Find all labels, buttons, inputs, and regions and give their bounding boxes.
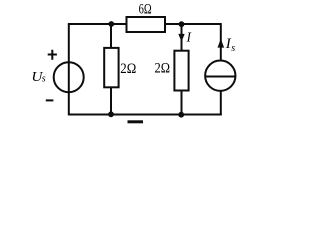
resistor R1 2Ω box: [104, 48, 118, 87]
node junction dot (bottom of R1 branch): [108, 111, 114, 117]
wire: left branch vertical (through voltage source): [68, 23, 70, 115]
resistor R2 2Ω box: [174, 51, 188, 91]
wire: right branch vertical bottom: [220, 91, 222, 115]
svg-text:s: s: [231, 43, 235, 54]
wire: top-left horizontal segment: [68, 23, 126, 25]
minus sign of Us: [46, 99, 54, 101]
node junction dot (top of R1 branch): [108, 21, 114, 27]
wire: top-right horizontal segment: [165, 23, 221, 25]
voltage source Us circle: [54, 62, 84, 92]
resistor R 6Ω box: [127, 17, 166, 32]
svg-text:2Ω: 2Ω: [120, 61, 136, 77]
svg-text:I: I: [186, 30, 193, 45]
arrow Is (upward on right branch): [218, 39, 225, 48]
current arrow I (downward on R2 branch): [181, 24, 183, 51]
node junction dot (top of R2 branch): [179, 21, 185, 27]
current source Is circle: [205, 61, 235, 91]
wire: R1 branch vertical bottom: [110, 87, 112, 115]
wire: R1 branch vertical top: [110, 24, 112, 48]
wire: R2 branch vertical bottom: [181, 90, 183, 115]
svg-text:2Ω: 2Ω: [155, 61, 171, 77]
svg-text:s: s: [42, 74, 46, 85]
current source horizontal bar: [205, 76, 236, 78]
wire: bottom horizontal: [68, 114, 222, 116]
wire: right branch vertical top: [220, 23, 222, 61]
ground bar: [128, 120, 144, 123]
svg-text:6Ω: 6Ω: [139, 2, 152, 18]
plus sign of Us: [48, 50, 57, 60]
node junction dot (bottom of R2 branch): [178, 112, 184, 118]
